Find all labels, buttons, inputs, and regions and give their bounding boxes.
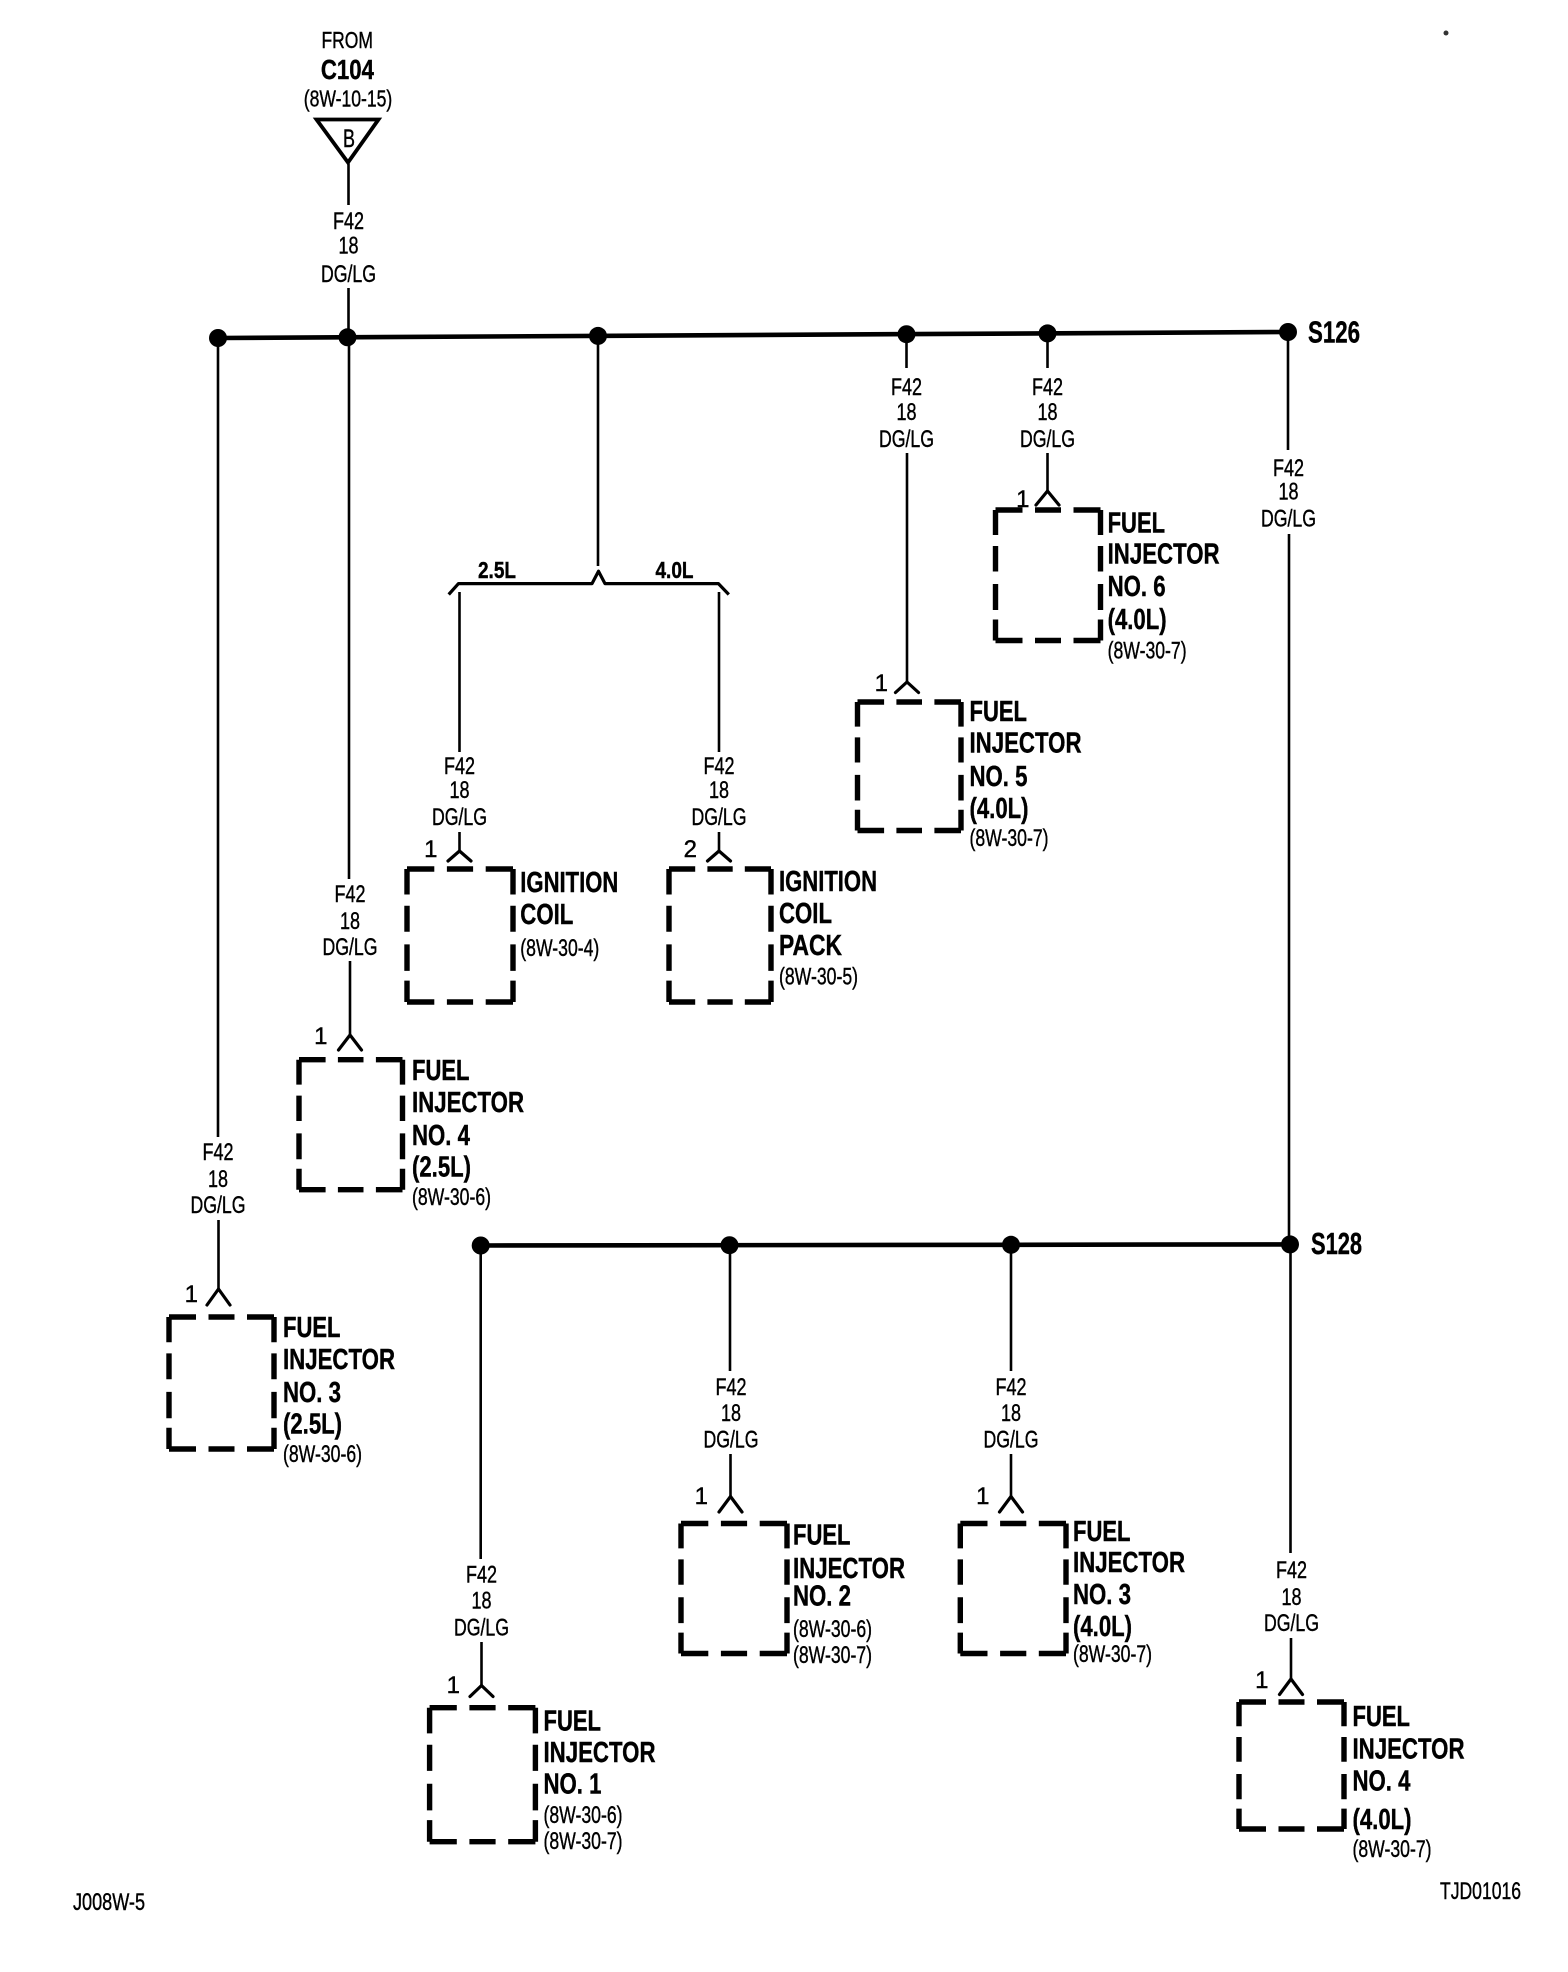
svg-text:(2.5L): (2.5L) [283,1409,342,1441]
label FUEL INJECTOR NO. 2 (8W-30-6) (8W-30-7) [793,1520,905,1670]
svg-text:18: 18 [897,399,917,426]
svg-text:(4.0L): (4.0L) [1353,1804,1412,1836]
svg-text:NO. 3: NO. 3 [283,1377,341,1409]
svg-text:NO. 5: NO. 5 [970,761,1028,793]
svg-text:FUEL: FUEL [544,1706,602,1738]
svg-text:B: B [343,125,355,153]
fuel injector no.3 (2.5L) box [169,1317,274,1449]
label FUEL INJECTOR NO. 6 (4.0L) (8W-30-7) [1108,508,1220,665]
node S126 junction dot d [898,325,916,343]
wire below splice S128 (injector no.4 4.0L upper) [1289,1245,1292,1554]
svg-text:INJECTOR: INJECTOR [1073,1547,1185,1579]
fuel injector no.4 (2.5L) box [299,1060,403,1190]
label FUEL INJECTOR NO. 4 (4.0L) (8W-30-7) [1353,1701,1465,1863]
svg-text:18: 18 [450,777,470,804]
wire below splice S128 (injector no.3 4.0L upper) [1010,1245,1013,1371]
svg-text:F42: F42 [704,753,735,780]
svg-text:FUEL: FUEL [1108,508,1166,540]
svg-text:F42: F42 [891,374,922,401]
label F42 18 DG/LG (S126 to S128 wire) [1261,455,1316,533]
connector fork pin 1 of injector no.5 [896,682,919,693]
svg-text:18: 18 [339,233,359,260]
connector fork pin 1 of injector no.1 [470,1686,493,1697]
fuel injector no.5 (4.0L) box [858,702,962,831]
svg-text:(8W-10-15): (8W-10-15) [304,86,393,112]
svg-text:NO. 6: NO. 6 [1108,571,1166,603]
svg-text:(8W-30-7): (8W-30-7) [793,1642,872,1669]
svg-text:FUEL: FUEL [283,1312,341,1344]
svg-text:1: 1 [976,1483,989,1510]
connector fork pin 1 of injector no.4 [339,1035,362,1050]
wire stub below splice S126 (injector no.6) [1046,334,1049,369]
svg-text:FUEL: FUEL [1073,1516,1131,1548]
svg-text:DG/LG: DG/LG [984,1427,1039,1454]
svg-text:FUEL: FUEL [793,1520,851,1552]
svg-text:FROM: FROM [321,27,373,53]
svg-text:(8W-30-7): (8W-30-7) [970,825,1049,852]
label IGNITION COIL PACK (8W-30-5) [779,866,877,991]
svg-text:INJECTOR: INJECTOR [412,1087,524,1119]
wire below splice S128 (injector no.1 upper) [479,1246,482,1560]
svg-text:PACK: PACK [779,930,842,962]
svg-text:DG/LG: DG/LG [879,426,934,453]
svg-text:(4.0L): (4.0L) [1073,1611,1132,1643]
svg-text:1: 1 [695,1483,708,1510]
svg-text:S128: S128 [1311,1226,1362,1261]
node S126 junction dot c [589,327,607,345]
wire segment to injector no.3 pin [217,1220,220,1289]
label FUEL INJECTOR NO. 3 (4.0L) (8W-30-7) [1073,1516,1185,1668]
fuel injector no.1 box [430,1708,536,1842]
wire segment to injector no.4 pin [349,961,352,1035]
wire segment to injector no.4 4.0L pin [1290,1638,1293,1679]
svg-text:IGNITION: IGNITION [779,866,877,898]
svg-text:4.0L: 4.0L [656,557,694,583]
svg-text:COIL: COIL [520,899,573,931]
svg-text:NO. 1: NO. 1 [544,1769,602,1801]
svg-text:18: 18 [709,777,729,804]
svg-text:DG/LG: DG/LG [323,934,378,961]
svg-text:(8W-30-6): (8W-30-6) [793,1616,872,1643]
label F42 18 DG/LG (injector no.2 wire) [704,1374,759,1454]
svg-text:1: 1 [424,836,437,863]
svg-text:FUEL: FUEL [412,1055,470,1087]
connector fork pin 1 of injector no.3 [207,1289,230,1305]
svg-text:TJD01016: TJD01016 [1440,1878,1521,1905]
connector fork pin 1 of ignition coil [448,851,471,861]
svg-text:1: 1 [447,1672,460,1699]
svg-text:18: 18 [208,1166,228,1193]
label IGNITION COIL (8W-30-4) [520,867,618,962]
svg-text:F42: F42 [996,1374,1027,1401]
node S128 junction dot b [721,1236,739,1254]
node S128 junction dot c [1002,1236,1020,1254]
svg-text:(8W-30-7): (8W-30-7) [1108,638,1187,665]
ignition coil box [407,869,513,1002]
svg-text:DG/LG: DG/LG [704,1427,759,1454]
svg-text:(4.0L): (4.0L) [970,793,1029,825]
label FUEL INJECTOR NO. 3 (2.5L) (8W-30-6) [283,1312,395,1468]
svg-text:C104: C104 [321,54,374,85]
svg-text:DG/LG: DG/LG [1264,1610,1319,1637]
svg-text:INJECTOR: INJECTOR [1353,1734,1465,1766]
node S126 junction dot b [339,328,357,346]
wire segment to ignition coil pin [458,832,461,851]
node S128 junction dot d [1281,1235,1299,1253]
svg-text:F42: F42 [333,208,364,235]
node S126 junction dot f [1279,323,1297,341]
wire stub below splice S126 (injector no.5) [905,334,908,368]
wire segment to injector no.3 4.0L pin [1010,1454,1013,1497]
wire from splice S126 to engine split [597,336,600,566]
svg-text:(8W-30-4): (8W-30-4) [520,935,599,962]
label F42 18 DG/LG (injector no.3 wire) [191,1139,246,1219]
connector fork pin 1 of injector no.2 [719,1497,742,1513]
label F42 18 DG/LG (injector no.5 wire) [879,374,934,453]
connector triangle B (from C104) [317,120,379,163]
svg-text:(8W-30-5): (8W-30-5) [779,964,858,991]
svg-text:DG/LG: DG/LG [321,261,376,288]
svg-text:S126: S126 [1308,315,1360,350]
svg-text:F42: F42 [466,1562,497,1589]
wire below splice S128 (injector no.2 upper) [729,1245,732,1371]
svg-text:FUEL: FUEL [970,696,1028,728]
svg-text:INJECTOR: INJECTOR [283,1344,395,1376]
svg-text:NO. 4: NO. 4 [412,1120,470,1152]
svg-text:(4.0L): (4.0L) [1108,604,1167,636]
label FUEL INJECTOR NO. 4 (2.5L) (8W-30-6) [412,1055,524,1211]
svg-text:NO. 2: NO. 2 [793,1581,851,1613]
svg-text:1: 1 [875,670,888,697]
splice bus S128 [481,1244,1290,1245]
svg-text:1: 1 [1255,1667,1268,1694]
label F42 18 DG/LG (coil pack wire) [692,753,747,831]
svg-text:FUEL: FUEL [1353,1701,1411,1733]
scan speck [1444,31,1449,36]
node S126 junction dot a [209,329,227,347]
connector fork pin 2 of ignition coil pack [708,851,731,861]
svg-text:DG/LG: DG/LG [191,1192,246,1219]
svg-text:2: 2 [684,836,697,863]
wire segment to coil pack pin [718,832,721,851]
node S128 junction dot a [472,1237,490,1255]
label F42 18 DG/LG (injector no.6 wire) [1020,374,1075,453]
svg-text:DG/LG: DG/LG [432,804,487,831]
svg-text:F42: F42 [203,1139,234,1166]
fuel injector no.2 box [681,1524,787,1654]
svg-text:(8W-30-6): (8W-30-6) [412,1184,491,1211]
svg-text:F42: F42 [335,881,366,908]
svg-text:(8W-30-7): (8W-30-7) [1073,1641,1152,1668]
fuel injector no.3 (4.0L) box [960,1524,1066,1654]
svg-text:18: 18 [1282,1584,1302,1611]
svg-text:18: 18 [1038,399,1058,426]
label FUEL INJECTOR NO. 5 (4.0L) (8W-30-7) [970,696,1082,852]
fuel injector no.4 (4.0L) box [1239,1702,1344,1829]
wire F42 from connector B to splice S126 [347,164,350,206]
wire segment to injector no.1 pin [480,1642,483,1686]
connector fork pin 1 of injector no.6 [1036,491,1059,505]
wire segment from label to splice S128 [1288,534,1291,1245]
label FUEL INJECTOR NO. 1 (8W-30-6) (8W-30-7) [544,1706,656,1856]
svg-text:F42: F42 [716,1374,747,1401]
svg-text:(8W-30-6): (8W-30-6) [544,1802,623,1829]
svg-text:(8W-30-7): (8W-30-7) [544,1828,623,1855]
svg-text:F42: F42 [444,753,475,780]
svg-text:DG/LG: DG/LG [1261,506,1316,533]
wire stub below splice S126 (to S128) [1287,332,1290,450]
svg-text:INJECTOR: INJECTOR [544,1737,656,1769]
engine option split brace 2.5L / 4.0L [449,571,729,594]
label F42 18 DG/LG (top feed wire) [321,208,376,288]
svg-text:COIL: COIL [779,898,832,930]
svg-text:J008W-5: J008W-5 [73,1889,145,1916]
connector fork pin 1 of injector no.3 4.0L [1000,1497,1023,1513]
wire segment to injector no.2 pin [729,1454,732,1497]
label F42 18 DG/LG (injector no.1 wire) [454,1562,509,1642]
node S126 junction dot e [1039,324,1057,342]
wire F42 2.5L branch to ignition coil (upper) [458,592,461,752]
svg-text:18: 18 [1001,1400,1021,1427]
svg-text:18: 18 [340,908,360,935]
svg-text:F42: F42 [1276,1557,1307,1584]
svg-text:DG/LG: DG/LG [454,1614,509,1641]
wire F42 splice S126 to injector no.3 (upper segment) [217,338,220,1137]
wire F42 splice S126 to injector no.4 (upper segment) [348,338,351,879]
svg-text:DG/LG: DG/LG [1020,426,1075,453]
svg-text:18: 18 [472,1588,492,1615]
splice bus S126 [218,332,1288,338]
label F42 18 DG/LG (ignition coil wire) [432,753,487,831]
wire segment to injector no.5 pin [906,453,909,682]
svg-text:1: 1 [185,1281,198,1308]
svg-text:18: 18 [721,1400,741,1427]
svg-text:2.5L: 2.5L [478,557,516,583]
svg-text:DG/LG: DG/LG [692,804,747,831]
svg-text:NO. 4: NO. 4 [1353,1766,1411,1798]
svg-text:INJECTOR: INJECTOR [970,728,1082,760]
fuel injector no.6 (4.0L) box [996,510,1101,641]
label F42 18 DG/LG (injector no.3 4.0L wire) [984,1374,1039,1454]
ignition coil pack box [669,869,771,1002]
wire segment into bus S126 [347,288,350,338]
label F42 18 DG/LG (injector no.4 wire) [323,881,378,961]
svg-text:(8W-30-6): (8W-30-6) [283,1441,362,1468]
label F42 18 DG/LG (injector no.4 4.0L wire) [1264,1557,1319,1637]
wire segment to injector no.6 pin [1046,453,1049,491]
svg-text:(2.5L): (2.5L) [412,1152,471,1184]
svg-text:F42: F42 [1032,374,1063,401]
svg-text:18: 18 [1279,479,1299,506]
svg-text:1: 1 [314,1023,327,1050]
svg-text:(8W-30-7): (8W-30-7) [1353,1836,1432,1863]
svg-text:IGNITION: IGNITION [520,867,618,899]
wire F42 4.0L branch to ignition coil pack (upper) [718,592,721,752]
connector fork pin 1 of injector no.4 4.0L [1280,1679,1303,1695]
svg-text:INJECTOR: INJECTOR [1108,539,1220,571]
label FROM C104 (8W-10-15) [304,27,393,112]
svg-text:NO. 3: NO. 3 [1073,1579,1131,1611]
